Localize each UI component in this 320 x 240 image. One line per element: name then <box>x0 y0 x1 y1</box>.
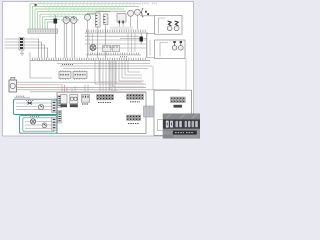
LCD connector hatched <box>144 106 154 117</box>
net label <box>62 64 73 66</box>
node mark <box>145 11 147 13</box>
wire <box>57 63 150 65</box>
capacitor C2 <box>180 42 182 46</box>
BT1 circle <box>10 83 15 88</box>
wire <box>147 33 155 35</box>
J6 label <box>130 101 140 103</box>
IC U5 <box>59 72 71 79</box>
U4 pins <box>104 17 106 23</box>
routing nest: wire <box>110 61 128 90</box>
Q2 case <box>174 26 179 31</box>
left pin strip <box>58 95 62 108</box>
diode D2 <box>140 37 143 42</box>
wire <box>61 19 79 21</box>
U5 label <box>60 74 69 76</box>
wire <box>54 24 56 59</box>
transistor Q3 <box>38 104 43 109</box>
display label <box>174 105 183 108</box>
LP1 cross <box>91 46 95 50</box>
node mark <box>147 13 149 15</box>
relay box RL2 <box>155 40 186 59</box>
capacitor C1 <box>174 42 176 46</box>
wire <box>97 27 99 58</box>
display header grid row2 <box>171 100 186 103</box>
wire <box>30 52 52 78</box>
crystal X1 <box>117 14 126 23</box>
wire <box>105 25 107 59</box>
label <box>26 100 34 102</box>
potentiometer RV2 <box>70 17 77 24</box>
wire <box>74 23 76 58</box>
component box <box>158 120 164 131</box>
IC U4 <box>104 14 108 25</box>
green net bundle: wire 1 <box>30 4 141 29</box>
connector J1 pins <box>31 30 56 32</box>
schematic sheet <box>3 2 194 137</box>
diode D3 <box>28 102 33 105</box>
wire 7 <box>45 19 60 29</box>
TB1 contacts <box>20 39 23 48</box>
brace <box>141 8 144 17</box>
mid bus: wire <box>85 35 139 37</box>
wire <box>60 65 152 67</box>
wire bus <box>85 32 148 34</box>
main pin header bus <box>31 59 151 61</box>
contacts <box>53 119 56 127</box>
photo inset <box>163 114 200 138</box>
U8 circles <box>70 97 73 100</box>
pins <box>58 97 60 106</box>
wire <box>14 97 30 99</box>
header J7 row1 <box>127 115 141 118</box>
title text <box>142 2 157 4</box>
connector block <box>52 101 57 113</box>
header J7 row2 <box>127 118 141 121</box>
U5 U6 pins <box>61 70 85 79</box>
wire 8 <box>48 22 57 29</box>
LP2 cross <box>31 120 35 124</box>
J5 pin dots <box>98 96 113 99</box>
terminal block TB1 <box>19 38 24 51</box>
Q3 mark <box>40 105 43 107</box>
IC U6 <box>73 72 87 79</box>
wire 5 <box>40 14 100 29</box>
wire <box>110 72 144 90</box>
wire <box>66 23 68 58</box>
transistor Q1 <box>168 21 172 26</box>
Q4 mark <box>43 124 45 126</box>
J7 label <box>128 123 139 125</box>
left terminal lines: wire <box>5 39 39 58</box>
pins <box>58 112 60 121</box>
connector block <box>52 118 57 131</box>
wire (vcc, pink) <box>17 85 63 92</box>
net label <box>120 56 128 58</box>
page background <box>0 0 200 142</box>
hatch <box>145 106 151 117</box>
wire 2 <box>33 6 140 29</box>
node label <box>35 4 37 6</box>
label strip <box>110 27 133 30</box>
wire 3 <box>35 9 124 29</box>
C1 top <box>173 41 176 43</box>
wire <box>96 10 126 12</box>
transistor Q4 <box>42 123 47 128</box>
U8 label <box>70 104 78 107</box>
wire <box>25 122 52 129</box>
wire <box>88 13 97 14</box>
transistor Q2 <box>175 21 179 26</box>
wire <box>85 43 147 45</box>
buzzer LS1 <box>128 10 134 16</box>
sensor U2 <box>85 14 91 20</box>
U7 label <box>61 104 68 107</box>
wire <box>16 103 52 110</box>
lamp LP2 <box>30 119 35 124</box>
wire <box>96 47 147 49</box>
wire (vcc drop) <box>65 85 68 92</box>
label <box>16 95 25 97</box>
K pins <box>104 47 117 49</box>
relay K2 <box>113 46 120 52</box>
wire <box>120 33 147 44</box>
wire <box>153 59 186 91</box>
wire <box>140 15 155 17</box>
U6 label <box>75 74 86 76</box>
left pin strip 2 <box>58 111 62 124</box>
wire bus <box>86 54 141 56</box>
wire <box>95 61 146 92</box>
wire <box>85 39 147 41</box>
header pins <box>33 58 146 60</box>
sensor box B outer <box>20 116 58 134</box>
C1 body <box>172 46 177 51</box>
sensor box B inner <box>23 118 55 131</box>
wire <box>72 84 88 92</box>
wire <box>87 20 89 58</box>
wire <box>147 34 155 58</box>
grid dots <box>172 98 184 101</box>
wire <box>17 81 109 83</box>
BT1 cap <box>11 77 15 80</box>
ground <box>20 51 24 56</box>
sensor box A <box>14 99 58 114</box>
display board box <box>154 90 192 135</box>
C2 body <box>179 46 184 51</box>
wire <box>89 33 150 58</box>
header row J2 <box>87 30 146 33</box>
wire (vcc, pink) <box>17 86 147 88</box>
wire 6 <box>43 17 75 29</box>
J7 pin dots <box>128 116 140 119</box>
wire <box>131 15 138 29</box>
lamp LP1 <box>90 45 96 51</box>
wire <box>54 15 56 19</box>
wire <box>5 45 45 58</box>
relay K1 <box>103 46 112 52</box>
IC U3 <box>96 13 101 27</box>
Q1 case <box>167 26 172 31</box>
wire <box>63 23 65 58</box>
display header grid row1 <box>171 97 186 100</box>
battery BT1 <box>9 80 17 92</box>
relay box RL1 <box>155 16 183 35</box>
wire <box>5 42 42 58</box>
wire <box>71 23 73 58</box>
header J6 row1 <box>127 94 144 97</box>
wire 4 <box>38 12 111 29</box>
MCU board box <box>57 92 146 133</box>
contacts <box>53 102 56 110</box>
opto U8 <box>70 95 78 104</box>
J6 pin dots <box>128 95 143 98</box>
wire <box>63 67 148 69</box>
header J6 row2 <box>127 97 144 100</box>
potentiometer RV1 <box>63 17 70 24</box>
RL1 coil frame <box>159 18 166 33</box>
connector J1 <box>28 29 58 33</box>
buzzer LS2 <box>134 9 140 15</box>
regulator U7 <box>61 95 68 104</box>
connector J4 <box>82 95 90 103</box>
wire <box>30 91 146 93</box>
header J5 row2 <box>97 97 114 100</box>
J4 label <box>82 103 89 105</box>
wire <box>119 24 123 30</box>
RL2 coil frame <box>160 43 168 57</box>
J4 pins <box>83 96 88 98</box>
wire <box>5 48 48 58</box>
X1 electrodes <box>119 21 123 24</box>
RV1 wiper mark <box>65 17 75 19</box>
header row J3 <box>88 53 139 55</box>
label <box>30 115 40 117</box>
U3 pins <box>96 16 98 25</box>
C2 top <box>180 41 183 43</box>
header J5 row1 <box>97 94 114 97</box>
diode D1 <box>54 19 58 24</box>
J5 label <box>98 102 111 104</box>
net labels (green) <box>40 3 136 16</box>
wire <box>17 89 181 92</box>
